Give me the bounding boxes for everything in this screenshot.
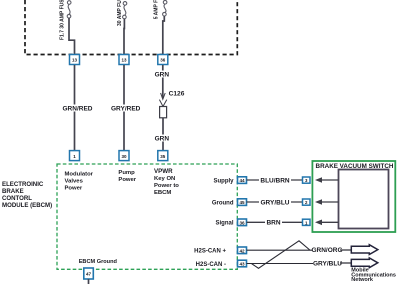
label BLU/BRN	[259, 177, 291, 185]
label Mobile Communications Network	[351, 268, 396, 283]
svg-text:MODULE (EBCM): MODULE (EBCM)	[2, 202, 52, 209]
svg-text:13: 13	[121, 58, 127, 63]
network arrow lower	[351, 258, 378, 268]
svg-text:47: 47	[86, 272, 92, 277]
label GRY/BLU (lower)	[313, 259, 342, 267]
label ELECTROINIC BRAKE CONTORL MODULE (EBCM)	[2, 181, 52, 209]
svg-text:GRN: GRN	[155, 72, 170, 79]
pin 1 (brake vacuum switch)	[303, 219, 311, 225]
pin 36 (fuse box, right)	[158, 55, 168, 65]
svg-text:BRN: BRN	[266, 220, 280, 227]
svg-text:Valves: Valves	[65, 179, 84, 185]
wire pin36 to C126	[162, 65, 164, 98]
svg-text:13: 13	[72, 58, 78, 63]
pin 1 (EBCM)	[70, 151, 80, 161]
pin 42 (EBCM)	[238, 247, 247, 254]
svg-text:GRY/RED: GRY/RED	[111, 106, 141, 113]
wire GRY/BLU to arrow	[340, 262, 351, 264]
svg-text:GRY/BLU: GRY/BLU	[313, 260, 342, 267]
wire C126 to pin 35	[162, 118, 164, 151]
svg-text:Power: Power	[65, 186, 83, 192]
fuse F3 symbol	[163, 0, 167, 16]
label Modulator Valves Power	[65, 172, 94, 192]
pin 44 (EBCM)	[238, 177, 247, 184]
label GRY/RED	[111, 105, 141, 113]
svg-text:BLU/BRN: BLU/BRN	[260, 177, 290, 184]
wire fuse F1 to pin 13	[69, 18, 75, 54]
svg-text:Pump: Pump	[118, 170, 135, 176]
label GRN/ORG	[311, 246, 342, 254]
pin 2 (brake vacuum switch)	[303, 199, 311, 205]
network arrow upper	[351, 245, 378, 255]
svg-text:GRN: GRN	[155, 136, 170, 143]
svg-text:5 AMP FUSE: 5 AMP FUSE	[154, 0, 160, 19]
wire GRN/RED column	[74, 65, 76, 151]
label VPWR Key ON Power to EBCM	[154, 168, 179, 196]
svg-text:BRAKE: BRAKE	[2, 188, 24, 195]
wire pin36 to switch pin1	[247, 221, 303, 223]
brake vacuum switch inner body	[339, 170, 389, 229]
svg-text:42: 42	[239, 248, 245, 253]
svg-text:Signal: Signal	[215, 221, 233, 227]
svg-text:30: 30	[121, 154, 127, 159]
svg-text:36: 36	[239, 220, 245, 225]
pin 30 (EBCM)	[119, 151, 129, 161]
svg-text:Power: Power	[118, 177, 136, 183]
label BRN	[265, 219, 282, 227]
EBCM dashed outline	[57, 164, 237, 269]
arrow into switch pin3	[315, 177, 339, 183]
svg-text:43: 43	[239, 262, 245, 267]
connector C126 terminal box	[160, 107, 167, 118]
label GRN (upper)	[154, 71, 170, 79]
svg-text:Key ON: Key ON	[154, 176, 175, 182]
fuse F2 symbol	[123, 2, 127, 19]
wire pin44 to switch pin3	[247, 179, 303, 181]
wire GRY/RED column	[123, 65, 125, 151]
svg-text:30 AMP FUSE: 30 AMP FUSE	[117, 0, 123, 26]
svg-text:44: 44	[239, 178, 245, 183]
svg-text:GRY/BLU: GRY/BLU	[260, 199, 289, 206]
svg-text:Network: Network	[351, 277, 374, 283]
wire EBCM ground down	[88, 279, 90, 284]
svg-text:Power to: Power to	[154, 183, 179, 189]
label GRN/RED	[63, 105, 93, 113]
fuse F1 symbol	[67, 1, 71, 18]
brake vacuum switch box	[312, 161, 395, 232]
pin 36 (EBCM right)	[238, 219, 247, 226]
pin 3 (brake vacuum switch)	[303, 177, 311, 183]
svg-text:Ground: Ground	[212, 200, 234, 206]
label GRY/BLU	[259, 199, 291, 207]
wire fuse F2 to pin 13	[123, 19, 125, 54]
arrow into switch pin1	[315, 220, 339, 226]
pin 13 (fuse box, left)	[70, 55, 80, 65]
wire pin45 to switch pin2	[247, 201, 303, 203]
label Pump Power	[118, 170, 136, 183]
label GRN (lower)	[154, 135, 170, 143]
svg-text:EBCM: EBCM	[154, 190, 171, 196]
connector C126 arrow	[161, 93, 166, 99]
svg-text:C126: C126	[169, 91, 185, 98]
svg-text:F1.7 30 AMP FUSE: F1.7 30 AMP FUSE	[60, 0, 66, 40]
svg-text:GRN/ORG: GRN/ORG	[311, 247, 342, 254]
wire fuse F3 to pin 36	[163, 16, 165, 54]
svg-text:45: 45	[239, 200, 245, 205]
svg-text:H2S-CAN -: H2S-CAN -	[196, 262, 226, 268]
svg-text:VPWR: VPWR	[154, 168, 173, 175]
twisted pair crossover	[251, 241, 309, 268]
svg-text:35: 35	[160, 154, 166, 159]
arrow into switch pin2	[315, 199, 339, 205]
svg-text:EBCM Ground: EBCM Ground	[79, 259, 118, 265]
pin 35 (EBCM)	[158, 151, 168, 161]
svg-text:ELECTROINIC: ELECTROINIC	[2, 181, 44, 188]
svg-text:H2S-CAN +: H2S-CAN +	[194, 249, 226, 255]
svg-text:Modulator: Modulator	[65, 172, 94, 178]
pin 45 (EBCM)	[238, 199, 247, 206]
connector C126 receptacle	[159, 100, 166, 107]
svg-text:CONTORL: CONTORL	[2, 195, 32, 202]
svg-text:36: 36	[160, 58, 166, 63]
pin 47 EBCM ground	[84, 268, 94, 279]
svg-text:Supply: Supply	[213, 178, 234, 184]
twisted pair wire H2S-CAN +	[247, 249, 314, 251]
svg-text:GRN/RED: GRN/RED	[63, 106, 93, 113]
pin 43 (EBCM)	[238, 260, 247, 267]
pin 13 (fuse box, middle)	[119, 55, 129, 65]
wire GRN/ORG to arrow	[340, 249, 351, 251]
twisted pair wire H2S-CAN -	[247, 263, 314, 265]
fuse box dashed outline	[25, 0, 237, 55]
